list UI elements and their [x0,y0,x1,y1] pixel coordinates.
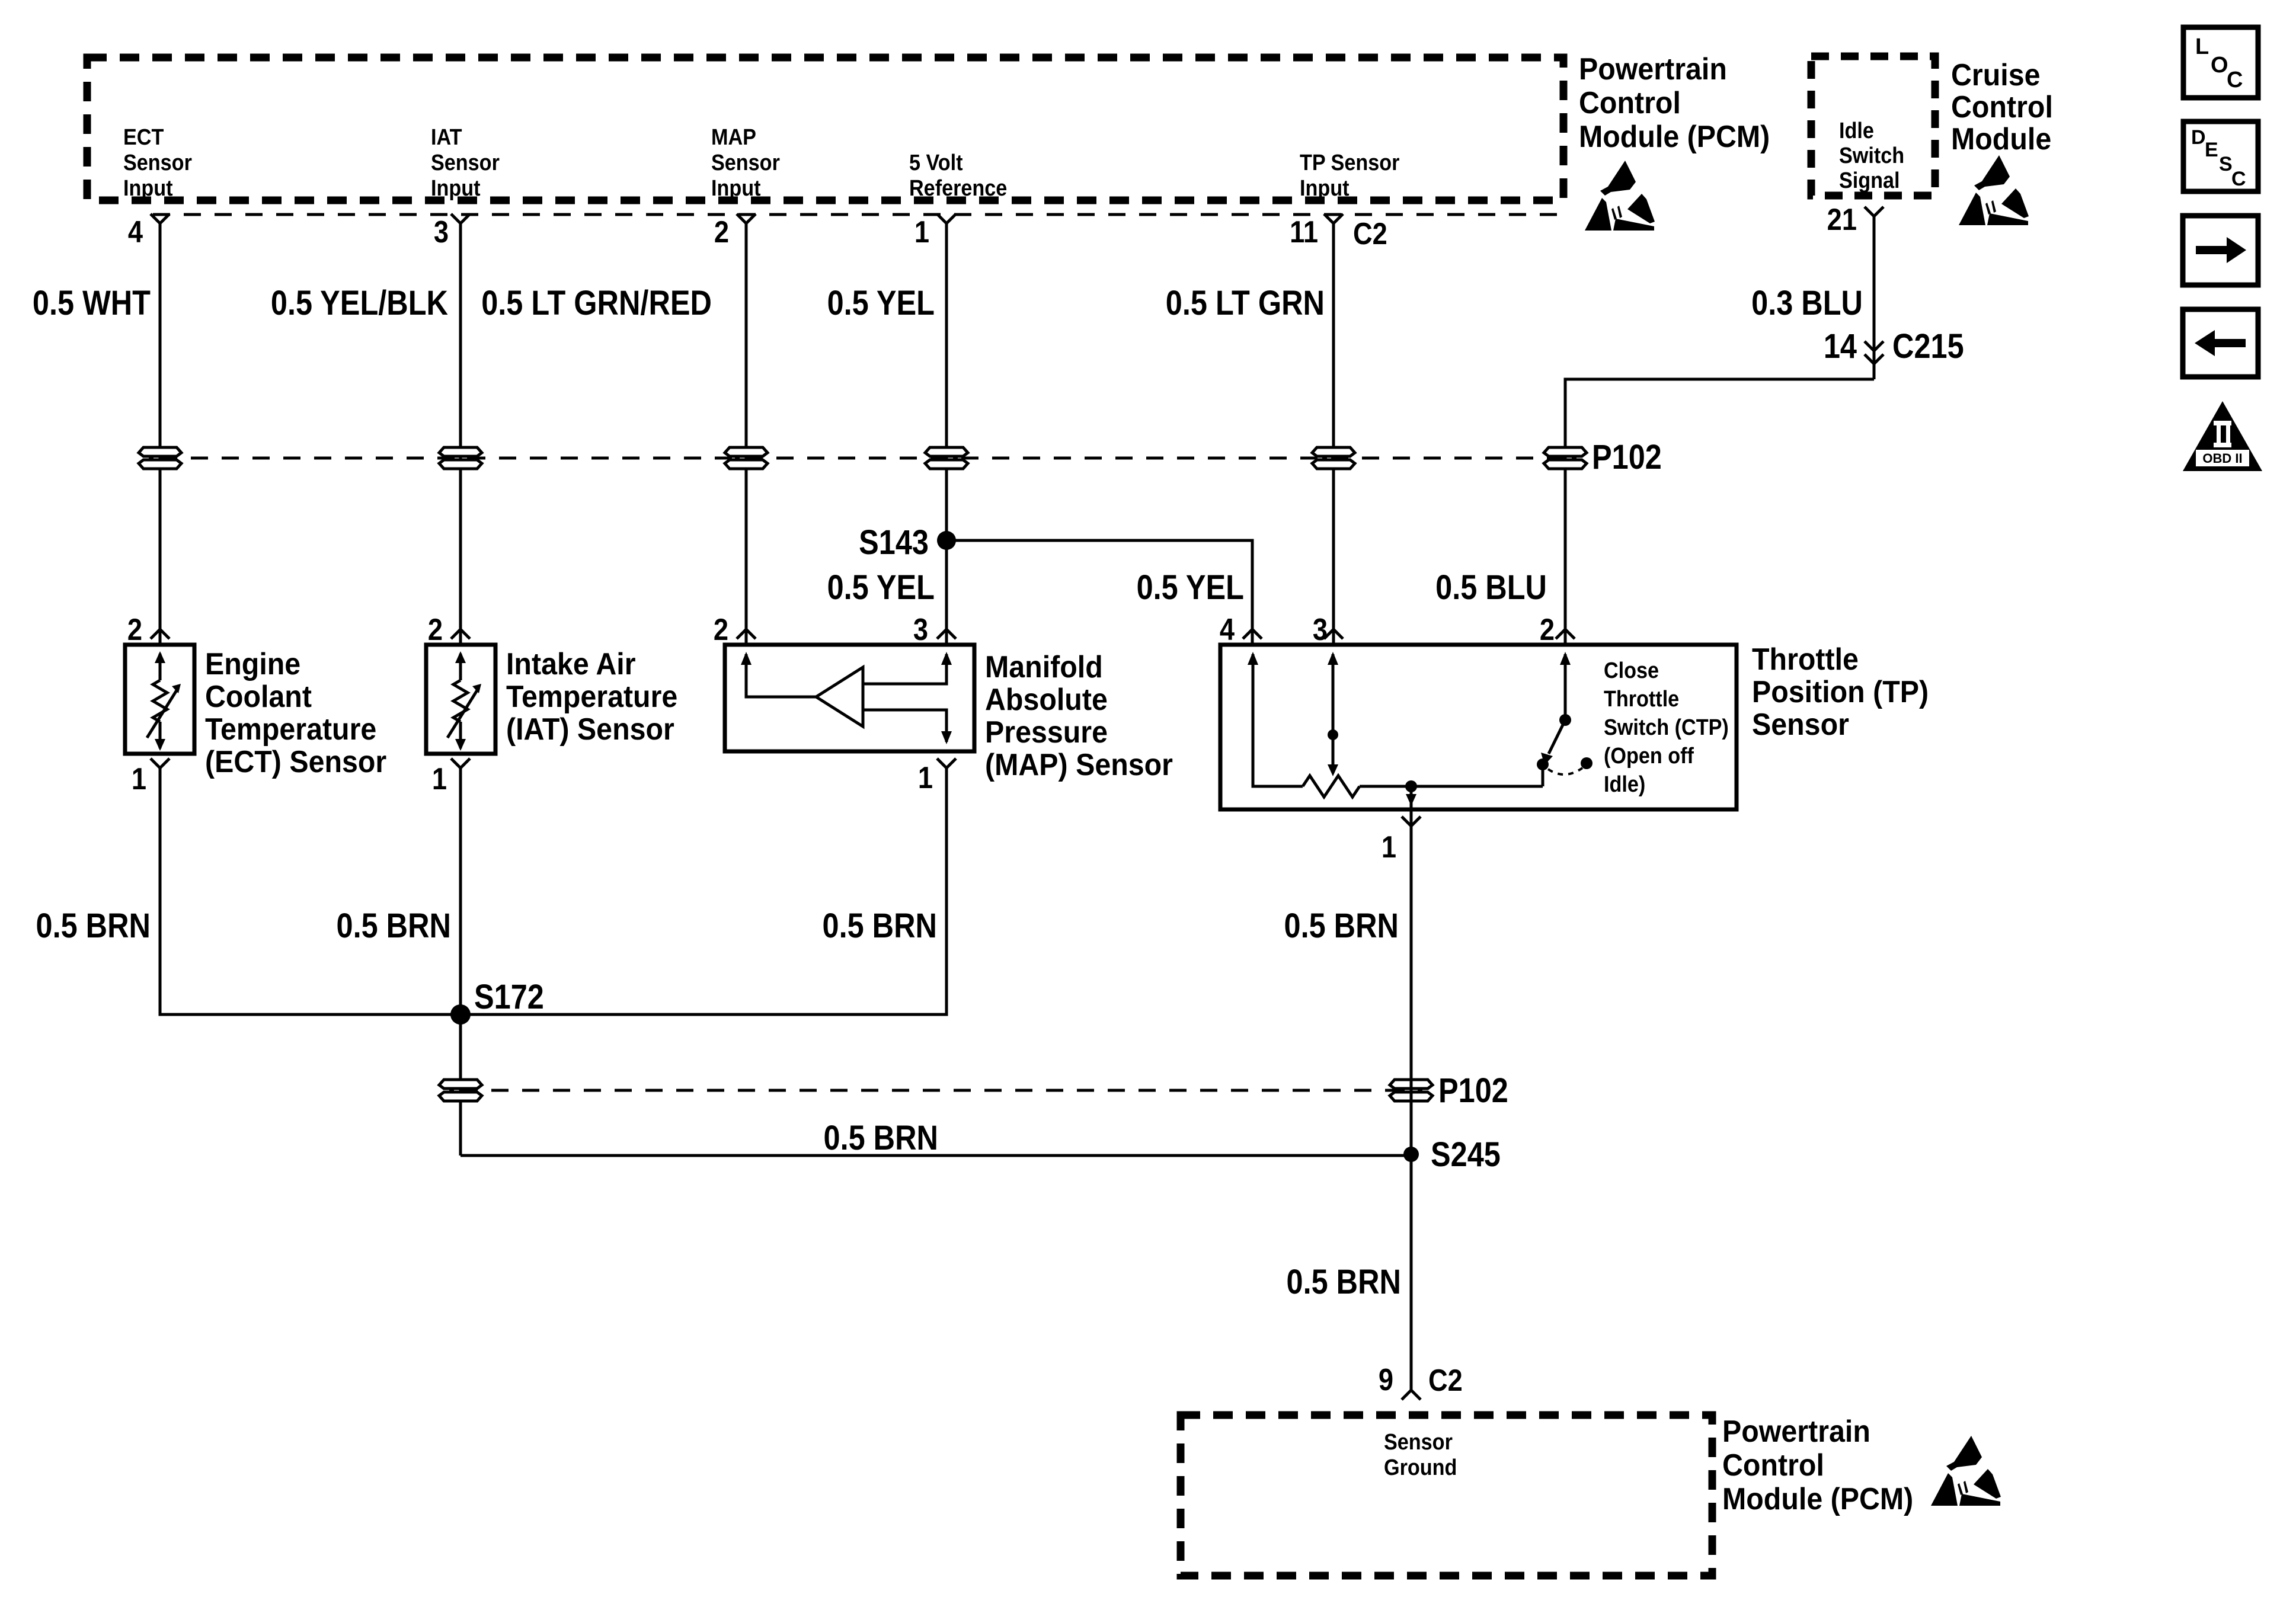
IAT pin 1 fork [451,758,470,768]
svg-text:0.5 YEL: 0.5 YEL [827,284,935,322]
P102 connector at 5V wire [925,447,968,469]
svg-text:C215: C215 [1892,327,1964,366]
svg-text:1: 1 [914,215,929,249]
left arrow [2215,339,2246,347]
TP pin 3 fork [1324,629,1343,639]
svg-text:ManifoldAbsolutePressure(MAP): ManifoldAbsolutePressure(MAP) Sensor [985,649,1173,782]
wire MAP 0.5 LT GRN/RED [745,223,748,629]
svg-text:2: 2 [714,215,729,249]
wire idle switch horizontal to P102 [1565,379,1874,629]
ECT pin 1 fork [151,758,170,768]
svg-text:TP SensorInput: TP SensorInput [1300,149,1399,200]
svg-text:EngineCoolantTemperature(ECT): EngineCoolantTemperature(ECT) Sensor [205,646,386,779]
DESC icon box [2183,121,2258,191]
IAT sensor box [426,645,495,754]
P102 connector at IAT wire [439,447,482,469]
svg-text:1: 1 [132,762,146,796]
svg-text:O: O [2211,53,2228,78]
TP pin 4 fork [1243,629,1262,639]
pin 4 fork (ECT input) [151,214,170,223]
svg-text:IdleSwitchSignal: IdleSwitchSignal [1839,117,1904,193]
svg-text:L: L [2195,34,2209,59]
IAT thermistor symbol [447,654,477,748]
svg-text:4: 4 [1220,613,1235,647]
OBD II triangle icon [2183,401,2262,471]
left arrow icon box [2183,309,2258,377]
ECT sensor box [125,645,194,754]
svg-text:21: 21 [1827,203,1857,237]
svg-text:2: 2 [127,613,142,647]
svg-text:3: 3 [1313,613,1328,647]
svg-text:S172: S172 [474,978,544,1016]
svg-text:S: S [2219,153,2233,175]
wire ECT 0.5 WHT [159,223,162,629]
MAP pin 3 fork [937,629,956,639]
LOC icon box [2183,27,2258,98]
wire ECT ground down [160,768,946,1014]
wire TP ground down [1410,826,1413,1390]
TP CTP switch [1543,654,1582,786]
svg-text:0.5 BRN: 0.5 BRN [823,907,937,945]
pin 3 fork (IAT input) [451,214,470,223]
ECT thermistor symbol [147,654,177,748]
wire idle switch 0.3 BLU vertical [1873,216,1876,379]
splice S143 dot [937,531,956,550]
svg-text:9: 9 [1379,1363,1393,1397]
pin 9 fork [1402,1390,1421,1400]
wire IAT ground through S172 [459,768,462,1156]
svg-text:4: 4 [128,215,143,249]
ESD symbol bottom PCM [1931,1436,2001,1506]
svg-text:Intake AirTemperature(IAT) Sen: Intake AirTemperature(IAT) Sensor [506,646,677,746]
TP sensor box [1220,645,1737,809]
Powertrain Control Module (PCM) dashed box (top) [87,57,1563,200]
svg-text:14: 14 [1824,327,1857,366]
svg-text:CloseThrottleSwitch (CTP)(Open: CloseThrottleSwitch (CTP)(Open offIdle) [1604,657,1729,796]
svg-text:S143: S143 [859,523,929,562]
wire IAT 0.5 YEL/BLK [459,223,462,629]
PCM C2 connector dashed line [153,213,1563,216]
Cruise Control Module dashed box [1811,56,1935,196]
MAP internal circuit [746,654,946,742]
svg-text:IATSensorInput: IATSensorInput [431,124,500,200]
svg-text:SensorGround: SensorGround [1384,1429,1457,1480]
MAP pin 2 fork [737,629,756,639]
P102 connector at ECT wire [139,447,181,469]
TP pin 1 fork [1402,817,1421,826]
splice S172 dot [450,1004,471,1025]
svg-text:2: 2 [714,613,728,647]
TP internal potentiometer [1253,654,1543,826]
svg-text:OBD II: OBD II [2202,451,2242,466]
splice S245 dot [1403,1147,1419,1162]
P102 row2 dashed line [461,1089,1411,1092]
wire S172 to S245 [461,1154,1411,1157]
svg-text:PowertrainControlModule (PCM): PowertrainControlModule (PCM) [1579,52,1770,153]
svg-text:3: 3 [434,215,449,249]
svg-text:ECTSensorInput: ECTSensorInput [123,124,192,200]
svg-text:0.5 WHT: 0.5 WHT [33,284,151,322]
svg-text:0.5 LT GRN: 0.5 LT GRN [1166,284,1325,322]
svg-text:2: 2 [1540,613,1555,647]
P102 row2 connector left [439,1080,482,1101]
pin 21 fork [1865,207,1884,216]
TP pin 2 fork [1556,629,1575,639]
svg-text:0.5 LT GRN/RED: 0.5 LT GRN/RED [481,284,712,322]
svg-text:1: 1 [1382,830,1396,865]
svg-text:PowertrainControlModule (PCM): PowertrainControlModule (PCM) [1722,1414,1913,1516]
pin 1 fork (5V ref) [937,214,956,223]
svg-text:0.5 YEL: 0.5 YEL [1137,568,1244,607]
svg-text:11: 11 [1290,215,1318,249]
svg-text:P102: P102 [1592,438,1662,476]
svg-text:0.5 BRN: 0.5 BRN [824,1119,938,1157]
svg-text:MAPSensorInput: MAPSensorInput [711,124,780,200]
svg-text:S245: S245 [1431,1135,1501,1174]
wire TP input 0.5 LT GRN [1332,223,1335,629]
svg-text:CruiseControlModule: CruiseControlModule [1951,57,2053,156]
svg-text:0.5 YEL: 0.5 YEL [827,568,935,607]
P102 dashed pass-through line [160,457,1565,460]
ESD symbol top PCM [1585,161,1655,231]
svg-text:5 VoltReference: 5 VoltReference [909,149,1007,200]
right arrow icon box [2183,216,2258,285]
MAP amplifier triangle [816,667,863,726]
pin 2 fork (MAP input) [737,214,756,223]
svg-text:2: 2 [428,613,443,647]
wire S143 branch to TP pin 4 [946,540,1252,629]
right arrow [2196,246,2227,254]
Powertrain Control Module (PCM) dashed box (bottom) [1181,1415,1712,1576]
wire 5V 0.5 YEL [945,223,948,629]
svg-text:C: C [2231,168,2246,190]
MAP pin 1 fork [937,758,956,768]
P102 connector at TP wire [1312,447,1355,469]
pin 11 fork (TP input) [1324,214,1343,223]
svg-text:0.5 BRN: 0.5 BRN [1284,907,1399,945]
svg-text:C2: C2 [1353,217,1387,251]
svg-text:1: 1 [918,761,933,795]
MAP sensor box [725,645,974,751]
svg-text:1: 1 [432,762,447,796]
svg-text:0.5 BRN: 0.5 BRN [36,907,151,945]
svg-text:ThrottlePosition (TP)Sensor: ThrottlePosition (TP)Sensor [1752,642,1929,741]
IAT pin 2 fork [451,629,470,639]
svg-text:0.5 BRN: 0.5 BRN [337,907,451,945]
svg-text:0.5 BLU: 0.5 BLU [1435,568,1547,607]
connector C215 chevrons [1865,341,1884,364]
P102 connector at MAP wire [725,447,768,469]
P102 connector at BLU wire [1544,447,1587,469]
svg-text:3: 3 [913,613,928,647]
ECT pin 2 fork [151,629,170,639]
svg-text:0.3 BLU: 0.3 BLU [1751,284,1863,322]
svg-text:C2: C2 [1428,1363,1463,1398]
svg-text:0.5 YEL/BLK: 0.5 YEL/BLK [271,284,448,322]
svg-text:E: E [2205,139,2218,161]
svg-text:C: C [2227,68,2243,92]
svg-text:D: D [2191,126,2206,149]
svg-text:0.5 BRN: 0.5 BRN [1287,1263,1401,1301]
ESD symbol cruise module [1959,155,2029,225]
P102 row2 connector right [1390,1080,1432,1101]
short wires fork to box tops [160,629,1565,645]
svg-text:P102: P102 [1438,1071,1508,1110]
